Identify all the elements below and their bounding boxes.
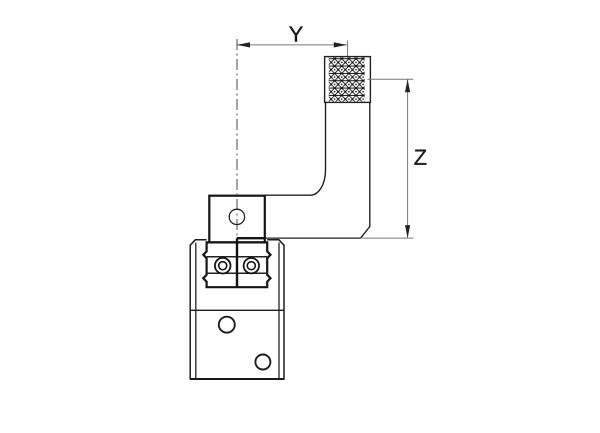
clamp body bottom edge bbox=[190, 378, 284, 380]
clamp body lower hole bbox=[255, 355, 270, 370]
clamp body divider line bbox=[190, 309, 284, 311]
centerline (vertical dash-dot axis) bbox=[236, 39, 238, 261]
clamp body right inner wall line bbox=[278, 243, 280, 380]
dimension Y right extension line bbox=[347, 41, 349, 57]
bent arm bottom edge bbox=[265, 237, 360, 239]
dimension Y line bbox=[237, 44, 347, 46]
dimension Z bottom extension line bbox=[362, 237, 413, 239]
dimension Y label bbox=[289, 26, 303, 41]
swivel block bbox=[209, 196, 264, 243]
right screw outer circle bbox=[244, 258, 259, 273]
clamp body left inner wall line bbox=[195, 243, 197, 380]
dimension Y left arrowhead bbox=[237, 42, 250, 47]
jaw assembly outline bbox=[203, 242, 270, 287]
knurled knob bbox=[325, 57, 371, 103]
left screw outer circle bbox=[215, 258, 231, 274]
bent arm inner edge with fillet bbox=[265, 102, 325, 195]
dimension Z line bbox=[407, 79, 409, 238]
dimension Z top extension line bbox=[368, 78, 414, 80]
right screw inner circle bbox=[247, 262, 255, 270]
jaw upper band line bbox=[207, 256, 268, 258]
dimension Z bottom arrowhead bbox=[405, 225, 410, 238]
swivel block step line bbox=[237, 237, 266, 239]
bent arm outer edge with chamfer bbox=[361, 102, 370, 238]
jaw center split line bbox=[236, 239, 238, 288]
jaw lower band line bbox=[207, 272, 268, 274]
left screw inner circle bbox=[219, 262, 227, 270]
swivel block hole bbox=[229, 209, 244, 224]
clamp body upper hole bbox=[219, 317, 235, 333]
dimension Y right arrowhead bbox=[334, 42, 347, 47]
dimension Z top arrowhead bbox=[405, 79, 410, 92]
dimension Z label bbox=[414, 150, 426, 165]
clamp body outline bbox=[190, 240, 284, 379]
